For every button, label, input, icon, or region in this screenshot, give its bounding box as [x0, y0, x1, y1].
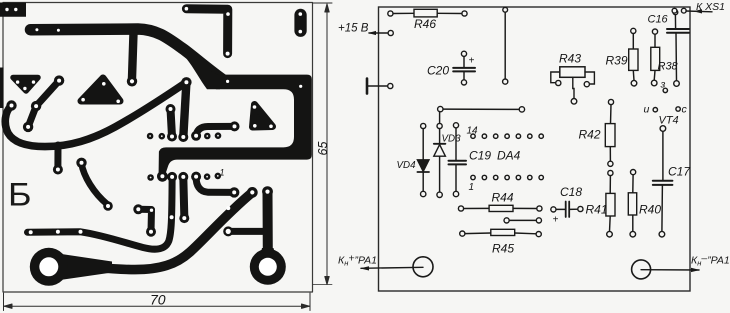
swoosh trace R from left pad to diagonal: [5, 83, 186, 147]
+15V supply pin: [338, 23, 393, 36]
resistor R46: [388, 9, 467, 17]
triangle pad C (inside pour window): [253, 105, 273, 129]
left edge copper bar: [0, 68, 4, 109]
svg-text:Б: Б: [8, 177, 32, 213]
transistor VT4 source pin: [644, 104, 658, 116]
svg-text:C16: C16: [648, 14, 669, 26]
svg-text:C19: C19: [469, 149, 491, 163]
T-stub from swoosh down to pad: [53, 145, 63, 175]
ring pads row1: [148, 134, 220, 139]
ring pads row2: [149, 174, 220, 180]
resistor R41: [606, 170, 615, 237]
svg-text:R43: R43: [559, 52, 581, 66]
svg-text:C17: C17: [668, 165, 691, 179]
capacitor C18 electrolytic: [551, 202, 583, 218]
svg-text:R46: R46: [414, 17, 436, 31]
vertical trace V-A: [166, 104, 178, 142]
svg-text:Кн–”РА1: Кн–”РА1: [691, 253, 730, 268]
svg-text:70: 70: [150, 292, 166, 308]
transistor VT4 drain pin: [676, 104, 688, 116]
small S trace: [76, 158, 112, 211]
svg-text:1: 1: [220, 168, 225, 178]
triangle pad A (small left): [13, 78, 38, 92]
diode VD3: [434, 112, 446, 198]
wire W1 short: [504, 218, 542, 223]
svg-text:VD4: VD4: [397, 160, 417, 171]
resistor R45: [460, 229, 542, 236]
svg-text:R42: R42: [579, 128, 601, 142]
mounting hole / terminal Kn+ PA1: [338, 253, 433, 277]
capacitor C17: [653, 132, 673, 238]
svg-text:R41: R41: [586, 203, 608, 217]
resistor R39: [629, 28, 638, 86]
svg-text:+: +: [469, 56, 475, 67]
transistor VT4 label and lead: [659, 115, 679, 132]
svg-text:DA4: DA4: [497, 149, 521, 163]
trimmer resistor R43: [551, 67, 595, 104]
oval pad top-right: [294, 9, 306, 37]
capacitor C16: [667, 10, 689, 86]
resistor R42: [605, 99, 615, 166]
bent link trace with 3 pads: [23, 75, 64, 132]
transistor VT4 gate pin: [660, 79, 668, 93]
svg-text:и: и: [644, 104, 650, 116]
long trace P with V1 rise to row2: [28, 172, 178, 249]
svg-text:R44: R44: [492, 191, 514, 205]
DA4 pin row bottom: [471, 175, 544, 179]
triangle pad B (big centre-left): [81, 78, 120, 103]
wire trace T1 top horizontal with S-bend: [31, 28, 225, 80]
svg-text:VD3: VD3: [442, 134, 462, 145]
svg-text:1: 1: [469, 182, 475, 193]
gamma trace top-right: [185, 7, 230, 56]
svg-text:VT4: VT4: [659, 115, 679, 127]
stub from T1 down to pad: [127, 33, 137, 87]
hook trace row2 to pad right: [191, 172, 239, 198]
svg-text:с: с: [682, 104, 688, 116]
svg-text:R40: R40: [639, 203, 661, 217]
large copper pour (top band, right edge bar, bottom band): [159, 55, 312, 174]
donut pad left with thick trace Q: [30, 187, 258, 286]
svg-text:R45: R45: [492, 242, 514, 256]
L-shape trace: [133, 204, 156, 236]
svg-text:C20: C20: [427, 64, 449, 78]
vertical trace V2 below row2: [178, 172, 189, 223]
svg-text:C18: C18: [560, 185, 582, 199]
board outline (left PCB): [3, 3, 313, 293]
svg-text:К XS1: К XS1: [696, 1, 725, 13]
dimension line vertical 65: [313, 3, 332, 285]
svg-text:+: +: [553, 215, 559, 226]
donut pad right with vertical trace: [250, 186, 286, 285]
wire W3 horizontal: [438, 106, 525, 112]
hook trace row1 to pad right: [191, 121, 239, 140]
capacitor C20: [453, 51, 475, 85]
diode VD4: [417, 123, 429, 196]
common terminal pin (bar): [367, 79, 393, 94]
svg-text:Кн+”РА1: Кн+”РА1: [338, 253, 377, 268]
mounting hole / terminal Kn- PA1: [632, 253, 730, 279]
pour elbow pad (node row2 left): [157, 171, 168, 182]
svg-text:R38: R38: [658, 61, 679, 73]
svg-text:R39: R39: [606, 54, 628, 68]
svg-text:65: 65: [316, 142, 330, 156]
vertical trace V-B from swoosh end pad: [178, 77, 191, 142]
resistor R44: [458, 205, 542, 211]
wire W2 vertical: [503, 7, 508, 84]
dimension line horizontal 70: [4, 293, 311, 311]
DA4 pin row top: [471, 134, 544, 138]
svg-text:+15 В: +15 В: [338, 23, 369, 35]
resistor R40: [628, 170, 636, 238]
connector K XS1: [672, 1, 725, 14]
board outline (component board): [379, 7, 691, 291]
arm trace to ring pad: [223, 226, 264, 236]
resistor R38: [651, 29, 660, 86]
capacitor C19: [449, 123, 467, 197]
corner pad rectangle top-left: [0, 3, 26, 17]
